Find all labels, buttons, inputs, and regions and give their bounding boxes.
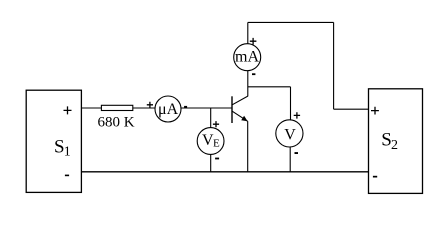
resistor 680K body	[101, 105, 132, 110]
svg-text:mA: mA	[235, 48, 259, 65]
voltmeter VE circle	[197, 128, 224, 155]
transistor Q1 emitter diagonal	[232, 111, 247, 121]
battery S1 box	[26, 90, 81, 192]
transistor Q1 collector diagonal	[232, 96, 247, 105]
wire collector branch to voltmeter V	[248, 86, 291, 88]
wire collector up to milliammeter	[247, 71, 249, 97]
transistor Q1 bar	[231, 96, 233, 123]
node VE tap wire	[210, 108, 212, 128]
svg-text:μA: μA	[158, 101, 179, 118]
polarity VE minus	[215, 158, 219, 160]
wire V bottom to rail	[289, 147, 291, 172]
polarity V minus	[295, 152, 299, 154]
polarity uA minus	[184, 106, 187, 108]
svg-text:V: V	[284, 126, 296, 143]
polarity S2 plus	[371, 107, 379, 115]
svg-text:VE: VE	[202, 132, 220, 149]
svg-text:680 K: 680 K	[98, 114, 135, 130]
wire top horizontal	[248, 21, 334, 23]
wire microammeter to base	[181, 107, 232, 109]
wire bottom rail	[82, 171, 369, 173]
transistor Q1 emitter arrowhead	[241, 116, 247, 122]
wire resistor to microammeter	[133, 107, 155, 109]
wire milliammeter top	[247, 22, 249, 44]
wire into S2 plus	[334, 108, 369, 110]
polarity VE plus	[213, 121, 219, 127]
polarity S1 plus	[64, 106, 72, 114]
ammeter uA circle	[155, 96, 181, 122]
polarity uA plus	[147, 102, 153, 108]
voltmeter V circle	[276, 120, 303, 147]
svg-text:S2: S2	[381, 129, 398, 153]
wire VE bottom to rail	[210, 154, 212, 171]
wire right vertical to S2	[333, 22, 335, 109]
battery S2 box	[369, 89, 423, 194]
svg-text:S1: S1	[54, 136, 71, 159]
polarity mA plus	[250, 38, 257, 45]
wire down to voltmeter V	[290, 87, 292, 120]
polarity mA minus	[252, 73, 255, 75]
wire emitter down to rail	[247, 121, 249, 172]
polarity S2 minus	[373, 176, 377, 178]
ammeter mA circle	[234, 44, 261, 71]
polarity V plus	[294, 112, 300, 118]
wire S1 plus to resistor	[82, 107, 102, 109]
polarity S1 minus	[65, 175, 69, 177]
